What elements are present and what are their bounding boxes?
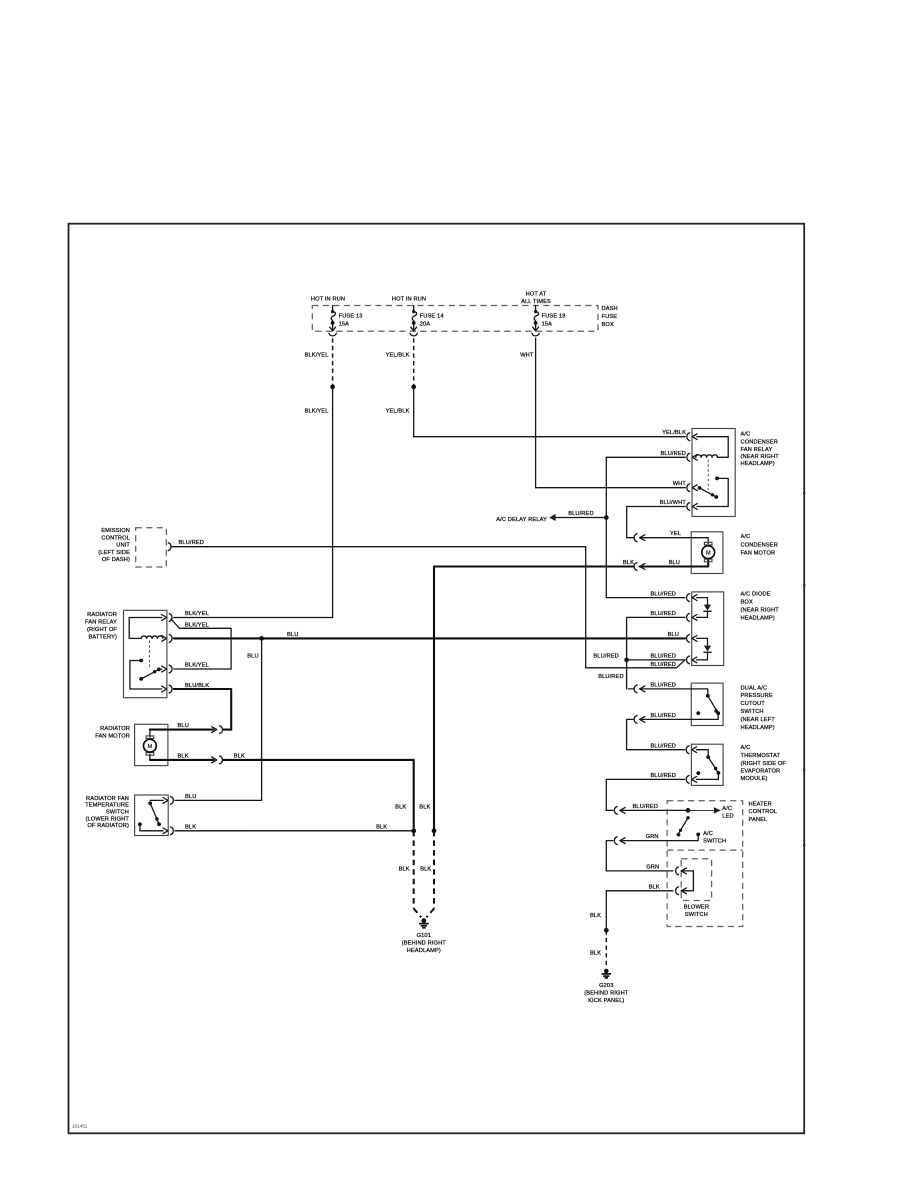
svg-text:BLK/YEL: BLK/YEL — [185, 663, 209, 669]
svg-text:BLU: BLU — [287, 632, 298, 638]
relay K1 switch — [139, 659, 143, 663]
motor M1 symbol — [149, 730, 151, 737]
radiator fan relay K1 — [124, 610, 167, 697]
wire BLU/RED diode pin 1 to vertical run — [606, 597, 685, 599]
wire BLK/YEL dashed from fuse 13 — [332, 338, 334, 387]
inline connector on YEL wire — [634, 534, 637, 542]
svg-text:BLK: BLK — [178, 754, 189, 760]
svg-text:(BEHIND RIGHT: (BEHIND RIGHT — [402, 940, 447, 946]
svg-text:YEL: YEL — [670, 531, 681, 537]
svg-text:BLK: BLK — [590, 913, 601, 919]
svg-text:BLU/RED: BLU/RED — [651, 611, 677, 617]
wire BLK/YEL jumper pin1 to pin3 — [171, 619, 231, 669]
thermostat pin bottom — [692, 777, 697, 783]
svg-text:LED: LED — [722, 814, 733, 820]
svg-text:HOT IN RUN: HOT IN RUN — [392, 297, 426, 303]
svg-text:BLK/YEL: BLK/YEL — [185, 611, 209, 617]
wire BLU vertical to radiator fan temperature switch — [261, 638, 263, 800]
blower switch box — [681, 859, 711, 901]
svg-text:PANEL: PANEL — [749, 817, 768, 823]
svg-text:A/C DELAY RELAY: A/C DELAY RELAY — [496, 517, 547, 523]
svg-text:FAN MOTOR: FAN MOTOR — [741, 551, 776, 557]
svg-text:BLU/RED: BLU/RED — [651, 713, 677, 719]
emission control unit box — [136, 528, 167, 567]
wire YEL/BLK dashed from fuse 14 — [413, 338, 415, 387]
svg-text:SWITCH: SWITCH — [685, 912, 708, 918]
dash fuse box — [312, 306, 598, 332]
svg-text:YEL/BLK: YEL/BLK — [662, 430, 686, 436]
svg-text:RADIATOR: RADIATOR — [100, 726, 130, 732]
wire BLK temperature switch to ground junction — [175, 830, 414, 832]
A/C LED arrow — [688, 809, 714, 811]
svg-text:FUSE 13: FUSE 13 — [339, 313, 363, 319]
heater control panel box — [667, 801, 743, 927]
svg-text:HEADLAMP): HEADLAMP) — [741, 725, 775, 731]
svg-text:YEL/BLK: YEL/BLK — [386, 408, 410, 414]
svg-text:BLU: BLU — [247, 654, 258, 660]
wire BLU/WHT from relay U1 pin 4 — [627, 507, 686, 538]
svg-text:(LOWER RIGHT: (LOWER RIGHT — [86, 816, 130, 822]
relay K1 pin 4 BLU/BLK — [162, 686, 167, 692]
wire BLK from motor M1 — [150, 759, 168, 761]
svg-text:PRESSURE: PRESSURE — [741, 693, 773, 699]
junction node BLU — [259, 636, 264, 641]
svg-text:BLK/YEL: BLK/YEL — [185, 622, 209, 628]
A/C switch — [686, 816, 689, 819]
A/C thermostat S2 — [691, 744, 723, 785]
wire BLU/RED pressure switch to thermostat — [634, 716, 637, 724]
relay U1 pin 2 BLU/RED — [692, 454, 697, 460]
svg-text:BLU: BLU — [178, 723, 189, 729]
svg-text:FUSE 18: FUSE 18 — [542, 313, 566, 319]
frame tick marks — [803, 492, 805, 494]
svg-text:A/C: A/C — [741, 745, 751, 751]
svg-text:DASH: DASH — [602, 306, 618, 312]
svg-text:A/C: A/C — [703, 831, 713, 837]
svg-text:BLU/RED: BLU/RED — [651, 773, 677, 779]
svg-text:BLK: BLK — [420, 866, 431, 872]
svg-text:(NEAR RIGHT: (NEAR RIGHT — [741, 454, 780, 460]
junction node at A/C switch — [686, 808, 691, 813]
relay U1 pin 4 BLU/WHT — [692, 504, 697, 510]
relay U1 pin 1 YEL/BLK — [692, 434, 697, 440]
svg-text:FUSE 14: FUSE 14 — [420, 313, 444, 319]
svg-text:15A: 15A — [542, 321, 553, 327]
A/C condenser fan motor M2 — [691, 532, 723, 574]
svg-text:A/C: A/C — [722, 806, 732, 812]
A/C diode box U2 — [692, 592, 724, 666]
wire BLU from motor M1 to relay pin 4 run — [150, 729, 168, 731]
junction node BLU/RED near diode pin 4 — [624, 658, 629, 663]
dual A/C pressure cutout switch S1 — [691, 683, 723, 725]
wire BLK vertical run to ground junction — [433, 567, 435, 831]
junction node BLU/RED at A/C delay relay tap — [604, 515, 609, 520]
svg-text:BLU/RED: BLU/RED — [661, 451, 687, 457]
motor M2 symbol — [691, 538, 708, 544]
fuse FUSE 13 15A — [332, 306, 334, 311]
svg-text:DUAL A/C: DUAL A/C — [741, 686, 768, 692]
diode box pin 3 BLU — [692, 636, 697, 642]
svg-text:20A: 20A — [420, 321, 431, 327]
diode box pin 2 BLU/RED — [692, 615, 697, 621]
inline connector on BLU motor wire — [212, 727, 217, 733]
svg-text:BLU/RED: BLU/RED — [568, 511, 594, 517]
wire BLU/RED from emission control unit — [171, 546, 586, 548]
svg-text:BOX: BOX — [741, 599, 753, 605]
wire BLU/RED from relay U1 pin 2 — [606, 456, 685, 458]
svg-text:GRN: GRN — [646, 834, 659, 840]
wire YEL into A/C condenser fan motor — [640, 537, 692, 539]
svg-text:(BEHIND RIGHT: (BEHIND RIGHT — [584, 991, 629, 997]
svg-text:BLK/YEL: BLK/YEL — [305, 408, 329, 414]
svg-text:BLU/RED: BLU/RED — [651, 653, 677, 659]
svg-text:SWITCH: SWITCH — [741, 709, 764, 715]
relay K1 pin 2 BLU — [162, 636, 167, 642]
wire BLU main run from radiator fan relay pin 2 to diode pin 3 — [174, 637, 685, 639]
diode D2 — [697, 638, 708, 645]
svg-text:HEADLAMP): HEADLAMP) — [741, 615, 775, 621]
svg-text:BLU/RED: BLU/RED — [179, 540, 205, 546]
svg-text:G203: G203 — [599, 983, 613, 989]
relay U1 actuator link — [707, 460, 709, 491]
svg-text:BLK: BLK — [590, 951, 601, 957]
fuse box output connector below FUSE 18 — [532, 333, 539, 336]
diode box pin 4 BLU/RED — [692, 657, 697, 663]
svg-text:HOT IN RUN: HOT IN RUN — [311, 297, 345, 303]
wire BLU/RED to diode pin 4 (diagonal) — [586, 660, 685, 668]
svg-text:BLU/WHT: BLU/WHT — [660, 500, 687, 506]
wire BLK dashed to ground — [605, 930, 607, 967]
svg-text:ALL TIMES: ALL TIMES — [521, 299, 551, 305]
svg-text:BLU/RED: BLU/RED — [598, 674, 624, 680]
svg-text:FAN RELAY: FAN RELAY — [85, 620, 117, 626]
wire segment BLK/YEL horizontal to relay pin 1 — [174, 617, 333, 619]
svg-text:FUSE: FUSE — [602, 314, 618, 320]
svg-text:101451: 101451 — [72, 1124, 88, 1129]
border frame — [69, 224, 805, 1134]
svg-text:BLK: BLK — [395, 804, 406, 810]
svg-text:FAN RELAY: FAN RELAY — [741, 447, 773, 453]
svg-text:(RIGHT OF: (RIGHT OF — [87, 627, 117, 633]
svg-text:HOT AT: HOT AT — [526, 292, 547, 298]
wire BLU from motor M2 / inline connector / BLK to ground run — [640, 565, 692, 567]
svg-text:CONTROL: CONTROL — [749, 809, 778, 815]
svg-text:BLK: BLK — [234, 754, 245, 760]
svg-text:GRN: GRN — [646, 865, 659, 871]
svg-text:HEATER: HEATER — [749, 801, 772, 807]
svg-text:KICK PANEL): KICK PANEL) — [588, 998, 624, 1004]
junction node BLK left — [411, 828, 416, 833]
relay U1 pin 3 WHT — [692, 485, 697, 491]
wire YEL/BLK solid down then right to A/C condenser fan relay pin 1 — [413, 387, 415, 437]
svg-text:BLU/RED: BLU/RED — [651, 682, 677, 688]
relay U1 switch — [715, 477, 719, 481]
wire BLU/BLK from relay pin 4 to radiator fan motor — [174, 689, 231, 730]
svg-text:RADIATOR FAN: RADIATOR FAN — [86, 796, 129, 802]
wire BLU/RED vertical at x=586 — [585, 547, 587, 668]
switch S3 pin BLU — [163, 798, 168, 804]
svg-text:WHT: WHT — [673, 481, 687, 487]
relay K1 pin 3 BLK/YEL — [162, 666, 167, 672]
svg-text:BATTERY): BATTERY) — [88, 634, 117, 640]
svg-text:RADIATOR: RADIATOR — [87, 612, 117, 618]
dashed diagonals into ground G101 — [414, 909, 422, 918]
fuse box output connector below FUSE 14 — [410, 333, 417, 336]
wire BLK vertical to ground G203 — [605, 891, 607, 931]
diode D1 — [697, 598, 708, 605]
switch S3 pin BLK — [163, 828, 168, 834]
wire BLU/RED junction to diode pin 4 — [627, 659, 685, 661]
svg-text:CUTOUT: CUTOUT — [741, 701, 766, 707]
svg-text:EVAPORATOR: EVAPORATOR — [741, 768, 781, 774]
junction node BLK above G203 — [604, 928, 609, 933]
svg-text:BLU/RED: BLU/RED — [651, 591, 677, 597]
svg-text:YEL/BLK: YEL/BLK — [386, 352, 410, 358]
svg-text:FAN MOTOR: FAN MOTOR — [95, 734, 130, 740]
wire GRN into blower switch — [606, 870, 673, 872]
svg-text:BLK: BLK — [376, 824, 387, 830]
wire BLK from blower switch — [676, 887, 679, 895]
svg-text:M: M — [148, 744, 153, 750]
wire WHT from fuse 18 to A/C condenser fan relay pin 3 — [535, 338, 537, 488]
ground G203 — [604, 969, 609, 974]
svg-text:BLK: BLK — [649, 884, 660, 890]
svg-text:G101: G101 — [417, 933, 431, 939]
diode box pin 1 BLU/RED — [692, 595, 697, 601]
wire BLK dashed to ground G101 left — [413, 831, 415, 909]
svg-text:CONTROL: CONTROL — [101, 536, 130, 542]
svg-text:BOX: BOX — [602, 322, 614, 328]
fuse box output connector below FUSE 13 — [329, 333, 336, 336]
fuse FUSE 14 20A — [413, 306, 415, 311]
wire BLU temperature switch to BLU junction — [175, 799, 262, 801]
thermostat internals — [696, 750, 708, 756]
svg-text:OF RADIATOR): OF RADIATOR) — [87, 823, 129, 829]
svg-text:HEADLAMP): HEADLAMP) — [407, 948, 441, 954]
svg-text:UNIT: UNIT — [116, 543, 130, 549]
wire BLK dashed to ground G101 right — [433, 831, 435, 909]
svg-text:BLU/RED: BLU/RED — [651, 743, 677, 749]
svg-text:BLU: BLU — [669, 560, 680, 566]
svg-text:A/C: A/C — [741, 431, 751, 437]
svg-text:A/C: A/C — [741, 534, 751, 540]
svg-text:HEADLAMP): HEADLAMP) — [741, 461, 775, 467]
svg-text:A/C DIODE: A/C DIODE — [741, 591, 771, 597]
splice junction on BLK/YEL — [330, 385, 335, 390]
switch S1 internals — [691, 689, 708, 695]
junction node BLK right — [432, 828, 437, 833]
emission control unit output connector — [168, 543, 171, 551]
svg-text:BLK: BLK — [185, 824, 196, 830]
svg-text:BLU/RED: BLU/RED — [593, 653, 619, 659]
relay K1 actuator link — [148, 641, 150, 669]
wire BLU/RED thermostat to heater control panel — [606, 778, 684, 780]
wire BLK/YEL solid down to radiator fan relay — [332, 387, 334, 618]
svg-text:WHT: WHT — [520, 352, 534, 358]
svg-text:BLK: BLK — [399, 866, 410, 872]
svg-text:(NEAR RIGHT: (NEAR RIGHT — [741, 607, 780, 613]
relay U1 coil — [697, 437, 728, 458]
radiator fan motor M1 — [135, 724, 168, 765]
svg-text:15A: 15A — [339, 321, 350, 327]
inline connector on pressure switch feed — [634, 685, 637, 693]
inline connector BLU/RED into panel — [606, 809, 613, 811]
inline connector on BLK motor wire — [212, 757, 217, 763]
splice junction on YEL/BLK — [411, 385, 416, 390]
svg-text:EMISSION: EMISSION — [101, 528, 130, 534]
heater control panel divider — [667, 849, 743, 851]
svg-text:SWITCH: SWITCH — [703, 838, 726, 844]
svg-text:OF DASH): OF DASH) — [102, 557, 130, 563]
relay K1 coil — [129, 618, 162, 639]
svg-text:BLOWER: BLOWER — [684, 905, 709, 911]
wire BLU/RED diode pin 2 down to junction — [627, 617, 685, 660]
wire BLU/RED vertical run — [605, 457, 607, 597]
thermostat pin top — [692, 747, 697, 753]
svg-text:TEMPERATURE: TEMPERATURE — [85, 803, 129, 809]
svg-text:MODULE): MODULE) — [741, 776, 768, 782]
svg-text:CONDENSER: CONDENSER — [741, 542, 778, 548]
wire BLK vertical run to ground junction — [413, 760, 415, 831]
wire BLU/RED junction to dual pressure switch — [626, 660, 628, 689]
A/C condenser fan relay U1 — [692, 429, 735, 517]
svg-text:BLK/YEL: BLK/YEL — [305, 352, 329, 358]
svg-text:SWITCH: SWITCH — [106, 809, 129, 815]
svg-text:BLK: BLK — [419, 804, 430, 810]
svg-text:(RIGHT SIDE OF: (RIGHT SIDE OF — [741, 761, 787, 767]
relay K1 pin 1 BLK/YEL — [162, 615, 167, 621]
svg-text:BLK: BLK — [623, 560, 634, 566]
switch S3 internals — [150, 799, 163, 801]
svg-text:BLU: BLU — [668, 632, 679, 638]
svg-text:BLU/RED: BLU/RED — [651, 662, 677, 668]
svg-text:CONDENSER: CONDENSER — [741, 439, 778, 445]
svg-text:M: M — [706, 551, 711, 557]
wire GRN from A/C switch — [620, 834, 698, 840]
ground G101 — [421, 918, 426, 923]
blower switch internals — [681, 871, 693, 891]
svg-text:BLU: BLU — [185, 794, 196, 800]
radiator fan temperature switch S3 — [135, 795, 169, 836]
svg-text:THERMOSTAT: THERMOSTAT — [741, 753, 781, 759]
svg-text:BLU/RED: BLU/RED — [633, 804, 659, 810]
wire to A/C delay relay with arrow — [555, 517, 606, 519]
svg-text:(NEAR LEFT: (NEAR LEFT — [741, 717, 776, 723]
fuse FUSE 18 15A — [535, 306, 537, 311]
svg-text:(LEFT SIDE: (LEFT SIDE — [98, 550, 130, 556]
